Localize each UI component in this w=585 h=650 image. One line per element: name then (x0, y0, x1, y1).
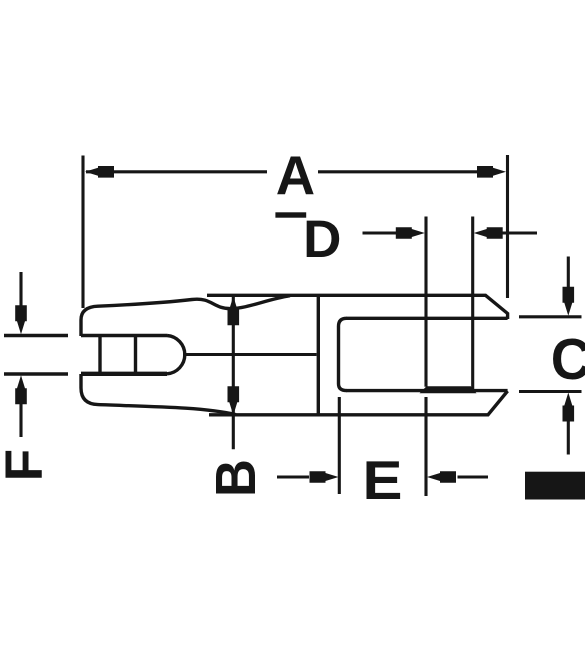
dim C bottom extension line (519, 390, 582, 393)
svg-text:D: D (303, 210, 341, 269)
thick bar on inner bottom line (420, 386, 477, 393)
fork slot bottom line (81, 372, 167, 376)
dim C top arrowhead (563, 287, 575, 316)
dim A right extension line (506, 155, 509, 298)
dim F lower extension stub (4, 372, 68, 375)
svg-text:F: F (0, 449, 54, 481)
link top line (207, 294, 318, 297)
shackle inner left edge with corners (339, 318, 347, 390)
dim D / E shared extension line lower part (424, 397, 427, 496)
fork upper outline (81, 296, 290, 336)
svg-text:C: C (551, 327, 585, 391)
shackle outer top edge with chamfer (318, 295, 508, 319)
dim D / E shared extension line upper part (424, 217, 427, 387)
dim A left arrowhead (85, 166, 114, 178)
svg-text:B: B (204, 459, 267, 497)
dim F bottom arrowhead (15, 375, 27, 404)
dim A line left segment (86, 170, 267, 173)
dim C bottom arrow line (567, 420, 570, 455)
dim E left leader line (277, 475, 309, 478)
centerline (183, 353, 317, 356)
svg-text:E: E (363, 450, 403, 511)
overbar dash above D (275, 212, 306, 217)
fork slot vertical 2 (134, 337, 137, 372)
dim F top arrow line (19, 272, 22, 306)
shackle inner top line (346, 317, 508, 320)
shackle inner bottom line (346, 389, 508, 392)
dim D right leader tail (501, 231, 538, 234)
dim A left extension line (81, 156, 84, 309)
dim E left arrowhead (310, 471, 339, 483)
fork slot round cap (167, 336, 185, 374)
dim D left arrowhead (396, 227, 425, 239)
dim B bottom arrowhead (228, 386, 240, 415)
dim D right arrowhead (474, 227, 503, 239)
dim D left leader line (363, 231, 400, 234)
dim C top extension line (519, 315, 582, 318)
dim C bottom arrowhead (563, 393, 575, 422)
dim B top arrowhead (228, 296, 240, 325)
dim E left extension line (338, 397, 341, 494)
dim A right arrowhead (477, 166, 506, 178)
fork slot vertical 1 (98, 337, 101, 372)
shackle left face (317, 297, 320, 415)
shackle outer bottom edge with chamfer (318, 391, 508, 415)
black rectangle bottom right (525, 472, 585, 500)
dim B line (232, 297, 235, 449)
dim E right leader tail (458, 475, 489, 478)
dim D right extension line (471, 217, 474, 391)
link bottom line (209, 413, 318, 416)
dim C top arrow line (567, 257, 570, 290)
fork slot top line (81, 334, 167, 337)
dim A line right segment (318, 170, 479, 173)
svg-text:A: A (276, 145, 315, 206)
fork lower outline (81, 374, 236, 415)
dim F upper extension stub (4, 334, 68, 337)
dim E right arrowhead (427, 471, 456, 483)
dim F bottom arrow line (19, 403, 22, 437)
dim F top arrowhead (15, 305, 27, 334)
